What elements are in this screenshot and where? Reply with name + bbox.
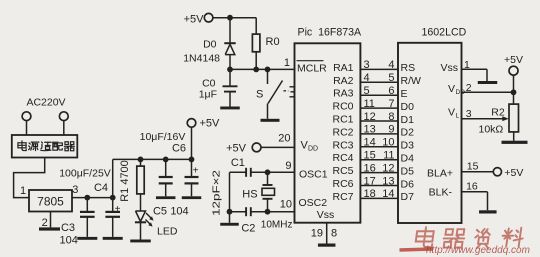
svg-text:OSC2: OSC2	[299, 197, 328, 209]
svg-text:RC1: RC1	[332, 114, 353, 126]
svg-text:1: 1	[20, 185, 26, 197]
svg-text:+5V: +5V	[504, 167, 523, 179]
svg-text:RC0: RC0	[332, 101, 353, 113]
svg-text:R/W: R/W	[401, 75, 422, 87]
svg-text:3: 3	[466, 108, 472, 120]
svg-text:Vss: Vss	[317, 209, 335, 221]
svg-text:RC6: RC6	[332, 178, 353, 190]
svg-text:L: L	[456, 113, 460, 120]
svg-text:AC220V: AC220V	[26, 97, 65, 109]
svg-text:14: 14	[364, 137, 376, 149]
svg-text:RC3: RC3	[332, 139, 353, 151]
svg-text:4: 4	[388, 59, 394, 71]
svg-text:4: 4	[364, 72, 370, 84]
svg-text:+5V: +5V	[184, 14, 205, 26]
svg-text:10μF/16V: 10μF/16V	[140, 131, 186, 143]
svg-text:12: 12	[382, 162, 394, 174]
svg-text:V: V	[448, 83, 455, 95]
svg-text:RC5: RC5	[332, 165, 353, 177]
svg-text:Vss: Vss	[440, 62, 458, 74]
svg-text:OSC1: OSC1	[299, 168, 328, 180]
svg-text:V: V	[448, 107, 455, 119]
svg-text:3: 3	[72, 184, 78, 196]
svg-text:RS: RS	[401, 62, 416, 74]
svg-text:C2: C2	[241, 223, 255, 235]
svg-text:+5V: +5V	[226, 142, 247, 154]
svg-text:1N4148: 1N4148	[183, 53, 220, 65]
svg-text:+: +	[115, 204, 121, 215]
svg-text:18: 18	[364, 188, 376, 200]
svg-text:HS: HS	[242, 189, 257, 201]
svg-text:+: +	[193, 165, 199, 176]
svg-text:D7: D7	[401, 191, 415, 203]
svg-text:12: 12	[364, 111, 376, 123]
svg-text:R0: R0	[266, 36, 280, 48]
svg-text:1μF: 1μF	[199, 89, 217, 101]
svg-text:RA1: RA1	[333, 62, 354, 74]
svg-text:15: 15	[364, 150, 376, 162]
svg-text:1602LCD: 1602LCD	[422, 26, 467, 38]
svg-text:19: 19	[311, 228, 323, 240]
svg-text:3: 3	[364, 59, 370, 71]
svg-text:RC4: RC4	[332, 152, 353, 164]
svg-text:16: 16	[466, 181, 478, 193]
svg-text:1: 1	[464, 59, 470, 71]
svg-text:BLK-: BLK-	[429, 186, 453, 198]
svg-text:8: 8	[388, 111, 394, 123]
svg-text:20: 20	[278, 133, 290, 145]
svg-text:15: 15	[467, 161, 479, 173]
svg-text:100μF/25V: 100μF/25V	[59, 168, 111, 180]
svg-text:7: 7	[388, 98, 394, 110]
svg-text:6: 6	[388, 85, 394, 97]
svg-text:5: 5	[364, 85, 370, 97]
svg-text:7805: 7805	[37, 195, 64, 209]
svg-text:10: 10	[280, 199, 292, 211]
svg-text:16: 16	[364, 162, 376, 174]
svg-text:+5V: +5V	[200, 118, 221, 130]
svg-text:12pF×2: 12pF×2	[211, 170, 223, 216]
svg-text:C4: C4	[94, 182, 108, 194]
svg-text:C6: C6	[172, 143, 186, 155]
svg-text:RA3: RA3	[333, 88, 354, 100]
svg-text:D3: D3	[401, 140, 415, 152]
svg-text:D2: D2	[401, 127, 415, 139]
svg-text:17: 17	[364, 175, 376, 187]
svg-text:C1: C1	[231, 157, 245, 169]
svg-text:LED: LED	[157, 226, 178, 238]
svg-text:RC2: RC2	[332, 126, 353, 138]
svg-text:DD: DD	[308, 145, 318, 152]
svg-text:RC7: RC7	[332, 191, 353, 203]
svg-text:S: S	[256, 89, 263, 101]
svg-text:D0: D0	[401, 101, 415, 113]
svg-text:9: 9	[388, 124, 394, 136]
svg-text:DD: DD	[456, 89, 466, 96]
svg-text:D1: D1	[401, 114, 415, 126]
svg-text:http://www.geeddq.com: http://www.geeddq.com	[426, 245, 530, 256]
svg-text:10kΩ: 10kΩ	[479, 124, 504, 136]
svg-text:104: 104	[60, 235, 78, 247]
svg-text:10: 10	[382, 137, 394, 149]
svg-text:5: 5	[388, 72, 394, 84]
svg-text:2: 2	[466, 82, 472, 94]
svg-text:BLA+: BLA+	[427, 168, 453, 180]
svg-text:104: 104	[170, 206, 188, 218]
svg-text:13: 13	[364, 124, 376, 136]
svg-text:C3: C3	[61, 222, 75, 234]
svg-text:9: 9	[285, 160, 291, 172]
svg-text:11: 11	[364, 98, 375, 110]
svg-text:1: 1	[284, 57, 290, 69]
svg-text:E: E	[401, 88, 408, 100]
svg-text:MCLR: MCLR	[297, 63, 327, 75]
svg-text:D4: D4	[401, 153, 415, 165]
svg-text:D0: D0	[203, 38, 217, 50]
svg-text:R2: R2	[491, 107, 505, 119]
svg-text:+5V: +5V	[504, 54, 523, 66]
svg-text:13: 13	[382, 175, 394, 187]
svg-text:11: 11	[383, 150, 394, 162]
svg-text:C5: C5	[153, 206, 167, 218]
svg-text:R1 4700: R1 4700	[119, 160, 131, 202]
svg-text:2: 2	[42, 217, 48, 229]
svg-text:10MHz: 10MHz	[261, 219, 293, 230]
svg-text:D6: D6	[401, 178, 415, 190]
svg-text:D5: D5	[401, 165, 415, 177]
svg-text:8: 8	[331, 228, 337, 240]
svg-text:14: 14	[382, 188, 394, 200]
svg-text:Pic 16F873A: Pic 16F873A	[298, 26, 363, 38]
svg-text:RA2: RA2	[333, 75, 354, 87]
